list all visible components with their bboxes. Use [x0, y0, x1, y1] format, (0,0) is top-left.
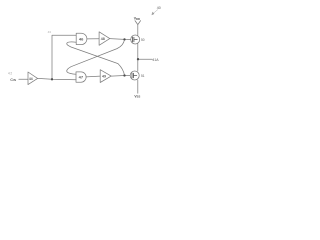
- VDD power symbol: [135, 21, 141, 35]
- wire buffer output to junction A: [38, 78, 76, 79]
- transistor 50 (top, circle): [131, 35, 140, 44]
- wire rail top circle to output node: [137, 44, 139, 71]
- wire top gate output to buffer: [87, 38, 99, 40]
- wire feedback bottom-junction to top gate input: [67, 42, 125, 76]
- figure pointer arrow 40: [152, 10, 158, 15]
- wire bottom gate output to buffer: [86, 75, 100, 78]
- transistor 51 (bottom, circle): [130, 71, 139, 80]
- junction C dot: [123, 74, 125, 76]
- svg-text:VDD: VDD: [134, 17, 140, 21]
- svg-text:40: 40: [157, 6, 161, 10]
- transistor 50 gate bar: [133, 37, 138, 42]
- NAND gate 47 (bottom): [76, 72, 86, 82]
- NAND gate 46 (top): [76, 33, 87, 44]
- wire feedback top-junction to bottom gate input: [67, 39, 125, 74]
- wire bottom buffer to junction C: [111, 75, 130, 78]
- svg-text:CIN: CIN: [10, 78, 16, 82]
- junction A dot: [51, 78, 53, 80]
- transistor 51 gate bar: [132, 73, 137, 78]
- svg-text:42: 42: [8, 72, 13, 76]
- svg-text:44: 44: [29, 77, 33, 81]
- wire vertical bus to top gate input: [52, 35, 76, 79]
- junction B dot: [123, 38, 125, 40]
- svg-text:46: 46: [79, 37, 84, 42]
- svg-text:48: 48: [101, 37, 105, 41]
- wire output node branch: [138, 58, 152, 60]
- svg-text:50: 50: [141, 38, 145, 42]
- buffer 49 (bottom row triangle): [100, 70, 111, 83]
- svg-text:41A: 41A: [152, 58, 159, 62]
- buffer 44 (input buffer triangle): [28, 72, 38, 85]
- svg-text:VSS: VSS: [134, 94, 140, 98]
- svg-text:43: 43: [48, 30, 52, 34]
- svg-text:47: 47: [79, 75, 84, 80]
- wire rail bottom circle to VSS: [137, 80, 139, 93]
- buffer 48 (top row triangle): [99, 32, 110, 46]
- wire CIN input: [19, 78, 28, 80]
- svg-text:49: 49: [102, 75, 106, 79]
- wire top buffer to junction B: [110, 38, 131, 41]
- junction D dot (output node): [137, 58, 139, 60]
- svg-text:51: 51: [141, 74, 145, 78]
